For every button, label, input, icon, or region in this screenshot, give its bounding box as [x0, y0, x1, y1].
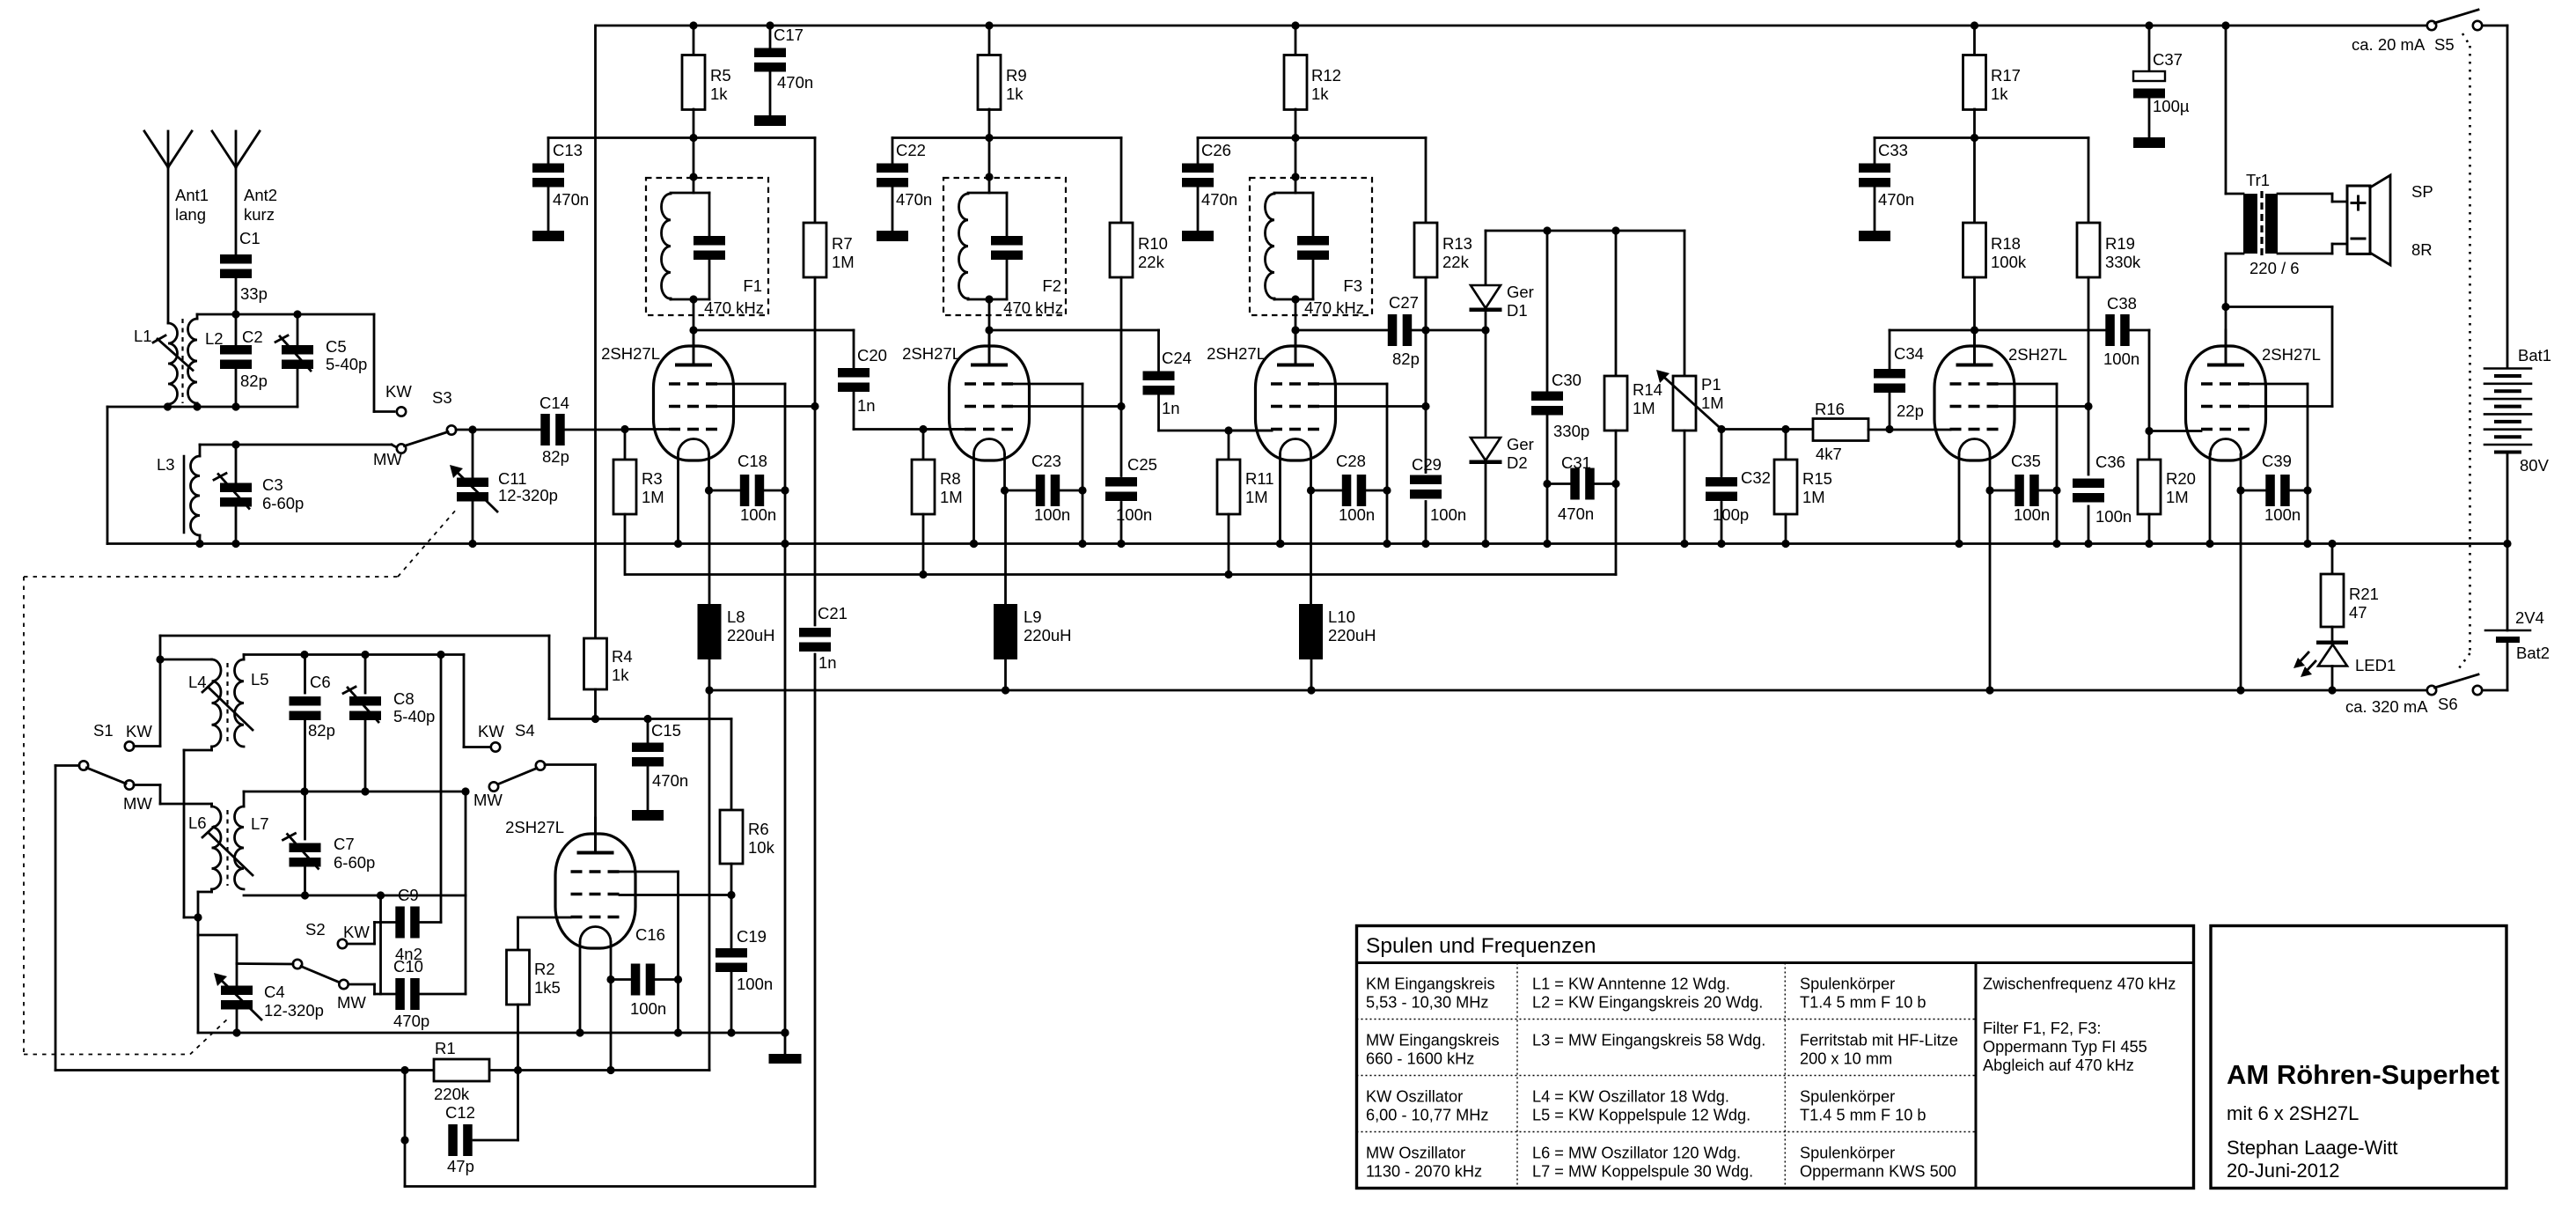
svg-text:22p: 22p [1897, 401, 1924, 420]
svg-text:C34: C34 [1894, 344, 1924, 363]
svg-text:Spulen und Frequenzen: Spulen und Frequenzen [1366, 934, 1596, 958]
svg-text:470n: 470n [553, 190, 589, 209]
svg-text:470 kHz: 470 kHz [1003, 298, 1063, 317]
svg-text:R16: R16 [1815, 400, 1845, 418]
svg-text:470n: 470n [777, 73, 813, 92]
svg-text:KW Oszillator: KW Oszillator [1366, 1088, 1463, 1106]
svg-text:lang: lang [175, 205, 206, 224]
svg-text:Stephan Laage-Witt: Stephan Laage-Witt [2227, 1137, 2397, 1159]
svg-text:470n: 470n [1558, 504, 1594, 523]
svg-text:100n: 100n [630, 999, 666, 1018]
svg-text:82p: 82p [1392, 350, 1420, 368]
svg-text:5-40p: 5-40p [326, 355, 367, 373]
svg-text:LED1: LED1 [2355, 656, 2396, 674]
svg-text:100n: 100n [1339, 505, 1375, 524]
svg-text:C35: C35 [2011, 452, 2041, 470]
svg-text:R17: R17 [1991, 66, 2021, 85]
svg-text:R21: R21 [2349, 585, 2379, 603]
svg-text:22k: 22k [1138, 253, 1165, 271]
svg-text:Tr1: Tr1 [2246, 171, 2270, 189]
svg-text:MW: MW [337, 993, 366, 1012]
svg-text:C36: C36 [2095, 453, 2125, 471]
svg-text:MW: MW [473, 791, 503, 809]
svg-text:R3: R3 [642, 469, 663, 488]
svg-text:MW: MW [373, 450, 402, 468]
svg-text:47: 47 [2349, 603, 2367, 622]
svg-text:100n: 100n [1034, 505, 1070, 524]
svg-text:470 kHz: 470 kHz [1304, 298, 1364, 317]
svg-text:100n: 100n [2014, 505, 2050, 524]
svg-text:2SH27L: 2SH27L [2262, 345, 2321, 364]
svg-text:220 / 6: 220 / 6 [2249, 259, 2300, 277]
svg-text:ca. 320 mA: ca. 320 mA [2345, 697, 2428, 716]
svg-text:R7: R7 [832, 234, 853, 253]
svg-text:1M: 1M [940, 488, 963, 506]
svg-text:100n: 100n [740, 505, 776, 524]
svg-text:L4: L4 [188, 673, 207, 691]
svg-text:C6: C6 [310, 673, 331, 691]
svg-text:C11: C11 [498, 469, 527, 488]
svg-text:F2: F2 [1042, 276, 1061, 295]
svg-text:100n: 100n [737, 975, 773, 993]
svg-text:C22: C22 [896, 141, 926, 159]
svg-text:R20: R20 [2166, 469, 2196, 488]
svg-text:D2: D2 [1507, 453, 1528, 472]
svg-text:100n: 100n [2264, 505, 2301, 524]
svg-text:ca. 20 mA: ca. 20 mA [2352, 35, 2426, 54]
svg-text:33p: 33p [240, 284, 268, 303]
svg-text:C38: C38 [2107, 294, 2137, 313]
svg-text:S6: S6 [2438, 695, 2458, 713]
svg-text:Spulenkörper: Spulenkörper [1800, 976, 1895, 993]
svg-text:1k: 1k [1006, 85, 1024, 103]
svg-text:C12: C12 [445, 1103, 475, 1122]
svg-text:L3 = MW Eingangskreis 58 Wdg.: L3 = MW Eingangskreis 58 Wdg. [1532, 1032, 1765, 1049]
svg-text:Bat2: Bat2 [2516, 644, 2550, 662]
svg-text:S4: S4 [515, 721, 535, 740]
svg-text:330k: 330k [2105, 253, 2141, 271]
svg-text:L7: L7 [251, 814, 269, 833]
svg-text:F3: F3 [1343, 276, 1362, 295]
svg-text:L1: L1 [134, 327, 152, 345]
svg-text:1k: 1k [612, 666, 629, 684]
svg-text:47p: 47p [447, 1157, 474, 1175]
svg-text:Spulenkörper: Spulenkörper [1800, 1145, 1895, 1162]
svg-text:R11: R11 [1245, 469, 1274, 488]
svg-text:2SH27L: 2SH27L [2008, 345, 2067, 364]
svg-text:82p: 82p [308, 721, 335, 740]
svg-text:C20: C20 [857, 346, 887, 364]
svg-text:Ferritstab mit HF-Litze: Ferritstab mit HF-Litze [1800, 1032, 1958, 1049]
svg-text:6-60p: 6-60p [262, 494, 304, 512]
svg-text:SP: SP [2411, 182, 2433, 201]
svg-text:R14: R14 [1633, 380, 1662, 399]
svg-text:MW Oszillator: MW Oszillator [1366, 1145, 1465, 1162]
svg-text:470p: 470p [393, 1012, 429, 1030]
svg-text:1n: 1n [1162, 399, 1180, 417]
svg-text:1130 - 2070 kHz: 1130 - 2070 kHz [1366, 1163, 1482, 1181]
svg-text:C25: C25 [1127, 455, 1157, 474]
svg-text:C37: C37 [2153, 50, 2183, 69]
svg-text:1k5: 1k5 [534, 978, 561, 997]
svg-text:C9: C9 [398, 886, 419, 904]
svg-text:100n: 100n [2103, 350, 2139, 368]
svg-text:1M: 1M [1802, 488, 1825, 506]
svg-text:C27: C27 [1389, 293, 1419, 312]
svg-text:C39: C39 [2262, 452, 2292, 470]
svg-text:1M: 1M [1633, 399, 1655, 417]
svg-text:S1: S1 [93, 721, 114, 740]
svg-text:220k: 220k [434, 1085, 470, 1103]
svg-text:C10: C10 [393, 957, 423, 976]
svg-text:L2: L2 [205, 329, 224, 348]
svg-text:R12: R12 [1311, 66, 1341, 85]
svg-text:1k: 1k [1311, 85, 1329, 103]
svg-text:1n: 1n [818, 653, 837, 672]
svg-text:6-60p: 6-60p [334, 853, 375, 872]
svg-text:Ant1: Ant1 [175, 186, 209, 204]
svg-text:Bat1: Bat1 [2518, 346, 2551, 364]
svg-text:C8: C8 [393, 689, 415, 708]
svg-text:L9: L9 [1024, 607, 1042, 626]
svg-text:MW: MW [123, 794, 152, 813]
svg-text:L4 = KW Oszillator 18 Wdg.: L4 = KW Oszillator 18 Wdg. [1532, 1088, 1729, 1106]
svg-text:T1.4 5 mm F 10 b: T1.4 5 mm F 10 b [1800, 1107, 1926, 1124]
svg-text:1k: 1k [1991, 85, 2008, 103]
svg-text:C33: C33 [1878, 141, 1908, 159]
svg-text:100n: 100n [2095, 507, 2132, 526]
svg-text:C1: C1 [239, 229, 261, 247]
svg-text:C23: C23 [1031, 452, 1061, 470]
svg-text:D1: D1 [1507, 301, 1528, 320]
svg-text:C2: C2 [242, 328, 263, 346]
svg-text:R1: R1 [435, 1039, 456, 1057]
svg-text:C24: C24 [1162, 349, 1192, 367]
svg-text:220uH: 220uH [727, 626, 775, 644]
svg-text:1n: 1n [857, 396, 876, 415]
svg-text:R9: R9 [1006, 66, 1027, 85]
svg-text:20-Juni-2012: 20-Juni-2012 [2227, 1160, 2339, 1182]
svg-text:1k: 1k [710, 85, 728, 103]
svg-text:2V4: 2V4 [2515, 608, 2544, 627]
svg-text:2SH27L: 2SH27L [601, 344, 660, 363]
svg-text:Ant2: Ant2 [244, 186, 277, 204]
svg-text:100µ: 100µ [2153, 97, 2190, 115]
svg-text:R4: R4 [612, 647, 633, 666]
svg-text:C14: C14 [539, 394, 569, 412]
svg-text:Abgleich auf 470 kHz: Abgleich auf 470 kHz [1983, 1057, 2134, 1074]
svg-text:4k7: 4k7 [1816, 445, 1842, 463]
svg-text:82p: 82p [542, 447, 569, 466]
svg-text:Oppermann Typ FI 455: Oppermann Typ FI 455 [1983, 1038, 2147, 1056]
svg-text:100k: 100k [1991, 253, 2027, 271]
svg-text:12-320p: 12-320p [498, 486, 558, 504]
svg-text:L5: L5 [251, 670, 269, 688]
svg-text:T1.4 5 mm F 10 b: T1.4 5 mm F 10 b [1800, 994, 1926, 1012]
svg-text:R19: R19 [2105, 234, 2135, 253]
svg-text:82p: 82p [240, 372, 268, 390]
svg-text:100n: 100n [1116, 505, 1152, 524]
svg-text:Ger: Ger [1507, 435, 1534, 453]
svg-text:L7 = MW Koppelspule 30 Wdg.: L7 = MW Koppelspule 30 Wdg. [1532, 1163, 1753, 1181]
svg-text:C16: C16 [635, 925, 665, 944]
svg-text:Spulenkörper: Spulenkörper [1800, 1088, 1895, 1106]
svg-text:C3: C3 [262, 475, 283, 494]
svg-text:200 x 10 mm: 200 x 10 mm [1800, 1050, 1892, 1068]
svg-text:1M: 1M [1701, 394, 1724, 412]
svg-text:C4: C4 [264, 983, 285, 1001]
svg-text:C13: C13 [553, 141, 583, 159]
svg-text:1M: 1M [642, 488, 664, 506]
svg-text:L8: L8 [727, 607, 745, 626]
svg-text:C30: C30 [1552, 371, 1582, 389]
svg-text:R8: R8 [940, 469, 961, 488]
svg-text:10k: 10k [748, 838, 775, 857]
svg-text:L10: L10 [1328, 607, 1355, 626]
svg-text:660 - 1600 kHz: 660 - 1600 kHz [1366, 1050, 1474, 1068]
svg-text:KW: KW [126, 722, 152, 740]
svg-text:80V: 80V [2520, 456, 2550, 475]
svg-text:R2: R2 [534, 960, 555, 978]
svg-text:470n: 470n [1878, 190, 1914, 209]
svg-text:R13: R13 [1442, 234, 1472, 253]
svg-text:R18: R18 [1991, 234, 2021, 253]
svg-text:KM Eingangskreis: KM Eingangskreis [1366, 976, 1495, 993]
svg-text:470 kHz: 470 kHz [704, 298, 764, 317]
svg-text:C28: C28 [1336, 452, 1366, 470]
svg-text:KW: KW [343, 923, 370, 941]
svg-text:100p: 100p [1713, 505, 1749, 524]
svg-text:P1: P1 [1701, 375, 1721, 394]
svg-text:C17: C17 [774, 26, 804, 44]
svg-text:mit 6 x 2SH27L: mit 6 x 2SH27L [2227, 1102, 2359, 1124]
svg-text:L1 = KW Anntenne 12 Wdg.: L1 = KW Anntenne 12 Wdg. [1532, 976, 1730, 993]
svg-text:F1: F1 [743, 276, 762, 295]
svg-text:8R: 8R [2411, 240, 2433, 259]
svg-text:L3: L3 [157, 455, 175, 474]
svg-text:C7: C7 [334, 835, 355, 853]
svg-text:5-40p: 5-40p [393, 707, 435, 725]
svg-text:R10: R10 [1138, 234, 1168, 253]
svg-text:L6 = MW Oszillator 120 Wdg.: L6 = MW Oszillator 120 Wdg. [1532, 1145, 1741, 1162]
svg-text:C29: C29 [1412, 455, 1442, 474]
svg-text:220uH: 220uH [1328, 626, 1376, 644]
svg-text:kurz: kurz [244, 205, 275, 224]
svg-text:C19: C19 [737, 927, 767, 946]
svg-text:C32: C32 [1741, 468, 1771, 487]
svg-text:220uH: 220uH [1024, 626, 1072, 644]
svg-text:KW: KW [385, 382, 412, 401]
svg-text:R5: R5 [710, 66, 731, 85]
svg-text:R6: R6 [748, 820, 769, 838]
svg-text:S3: S3 [432, 388, 452, 407]
svg-text:470n: 470n [1201, 190, 1237, 209]
svg-text:Ger: Ger [1507, 283, 1534, 301]
svg-text:C31: C31 [1561, 453, 1591, 472]
svg-text:MW Eingangskreis: MW Eingangskreis [1366, 1032, 1500, 1049]
svg-text:L6: L6 [188, 814, 207, 832]
svg-text:2SH27L: 2SH27L [1207, 344, 1266, 363]
svg-text:2SH27L: 2SH27L [505, 818, 564, 836]
svg-text:12-320p: 12-320p [264, 1001, 324, 1020]
svg-text:C15: C15 [651, 721, 681, 740]
svg-text:2SH27L: 2SH27L [902, 344, 961, 363]
svg-text:470n: 470n [896, 190, 932, 209]
svg-text:C26: C26 [1201, 141, 1231, 159]
svg-text:1M: 1M [832, 253, 855, 271]
svg-text:C5: C5 [326, 337, 347, 356]
svg-text:Filter F1, F2, F3:: Filter F1, F2, F3: [1983, 1020, 2101, 1037]
svg-text:22k: 22k [1442, 253, 1470, 271]
svg-text:1M: 1M [2166, 488, 2189, 506]
svg-text:KW: KW [478, 722, 504, 740]
svg-text:Oppermann KWS 500: Oppermann KWS 500 [1800, 1163, 1956, 1181]
svg-text:100n: 100n [1430, 505, 1466, 524]
svg-text:6,00 - 10,77 MHz: 6,00 - 10,77 MHz [1366, 1107, 1489, 1124]
svg-text:L2 = KW Eingangskreis 20 Wdg.: L2 = KW Eingangskreis 20 Wdg. [1532, 994, 1763, 1012]
svg-text:5,53 - 10,30 MHz: 5,53 - 10,30 MHz [1366, 994, 1489, 1012]
svg-text:1M: 1M [1245, 488, 1268, 506]
svg-text:R15: R15 [1802, 469, 1832, 488]
svg-text:S2: S2 [305, 920, 326, 939]
svg-text:470n: 470n [652, 771, 688, 790]
svg-text:S5: S5 [2434, 35, 2455, 54]
svg-text:Zwischenfrequenz 470 kHz: Zwischenfrequenz 470 kHz [1983, 976, 2176, 993]
svg-text:AM Röhren-Superhet: AM Röhren-Superhet [2227, 1059, 2499, 1090]
svg-text:L5 = KW Koppelspule 12 Wdg.: L5 = KW Koppelspule 12 Wdg. [1532, 1107, 1750, 1124]
svg-text:330p: 330p [1553, 422, 1589, 440]
svg-text:C21: C21 [818, 604, 848, 622]
svg-text:C18: C18 [738, 452, 767, 470]
